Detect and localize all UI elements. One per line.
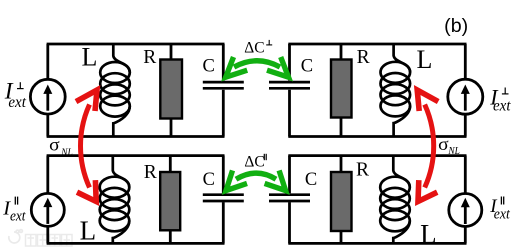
wire top rail of bottom-right circuit [288, 154, 466, 157]
current source I_ext-par (bottom-right) [449, 194, 482, 227]
wire left edge upper segment (top-right circuit) [288, 44, 291, 81]
svg-text:L: L [417, 45, 433, 74]
wire right edge upper segment (top-left circuit) [222, 44, 225, 81]
wire right edge lower segment (top-left circuit) [222, 90, 225, 137]
current source I_ext-par (bottom-left) [31, 193, 64, 226]
svg-text:R: R [144, 162, 157, 183]
wire bottom rail of top-left circuit [47, 135, 225, 138]
watermark text (faint) [26, 235, 73, 247]
svg-text:L: L [82, 43, 98, 72]
wire top rail of bottom-left circuit [47, 154, 225, 157]
svg-text:σ: σ [49, 135, 60, 155]
wire right edge lower segment (bottom-left circuit) [222, 202, 225, 243]
svg-text:C: C [305, 170, 317, 190]
wire left edge lower segment (top-right circuit) [288, 90, 291, 137]
coupling arrow Delta-C-perp top (green, double-headed) [234, 61, 280, 67]
coupling arrow sigma_NL left (red, double-headed) [81, 105, 90, 188]
wire left edge upper segment (bottom-right circuit) [288, 156, 291, 194]
wire top rail of top-left circuit [47, 43, 225, 46]
capacitor C (bottom-left circuit) [203, 193, 244, 196]
svg-text:ΔC: ΔC [244, 39, 264, 56]
svg-text:NL: NL [60, 148, 73, 159]
svg-text:C: C [203, 170, 215, 190]
svg-text:R: R [357, 47, 370, 68]
coupling arrow sigma_NL right (red, double-headed) [425, 105, 434, 188]
svg-text:ext: ext [493, 98, 511, 115]
coupling arrow Delta-C-par bottom (green, double-headed) [236, 173, 276, 179]
resistor R (bottom-right circuit) [340, 156, 343, 172]
wire left edge of top-left circuit [46, 44, 49, 137]
inductor L (bottom-left circuit) [113, 156, 130, 188]
svg-text:ext: ext [494, 206, 511, 222]
capacitor C (top-left circuit) [203, 81, 244, 84]
current source I_ext-perp (top-left) [30, 79, 65, 114]
watermark logo (faint) [9, 230, 23, 243]
svg-text:C: C [301, 57, 313, 77]
resistor R (top-right circuit) [340, 44, 343, 60]
inductor L (bottom-right circuit) [393, 156, 410, 188]
resistor R (bottom-left circuit) [169, 156, 172, 172]
wire top rail of top-right circuit [288, 43, 466, 46]
wire left edge lower segment (bottom-right circuit) [288, 202, 291, 243]
capacitor C (top-right circuit) [269, 81, 310, 84]
svg-text:C: C [203, 57, 215, 77]
capacitor C (bottom-right circuit) [269, 193, 310, 196]
svg-text:NL: NL [448, 146, 461, 157]
wire bottom rail of bottom-left circuit [47, 242, 225, 245]
svg-text:σ: σ [438, 134, 449, 154]
resistor R (top-left circuit) [170, 44, 173, 60]
svg-text:L: L [420, 219, 437, 249]
svg-text:(b): (b) [444, 15, 468, 37]
wire bottom rail of top-right circuit [288, 135, 466, 138]
inductor L (top-left circuit) [113, 44, 130, 73]
wire right edge upper segment (bottom-left circuit) [222, 156, 225, 194]
svg-text:R: R [143, 47, 156, 68]
wire right edge of bottom-right circuit [464, 156, 467, 244]
wire left edge of bottom-left circuit [46, 156, 49, 244]
current source I_ext-perp (top-right) [448, 79, 483, 114]
svg-text:R: R [356, 160, 369, 181]
svg-text:L: L [80, 215, 97, 245]
svg-text:ΔC: ΔC [244, 153, 264, 170]
svg-text:ext: ext [8, 94, 26, 111]
wire bottom rail of bottom-right circuit [288, 242, 466, 245]
wire right edge of top-right circuit [464, 44, 467, 137]
inductor L (top-right circuit) [394, 44, 411, 72]
svg-text:ext: ext [10, 209, 26, 225]
